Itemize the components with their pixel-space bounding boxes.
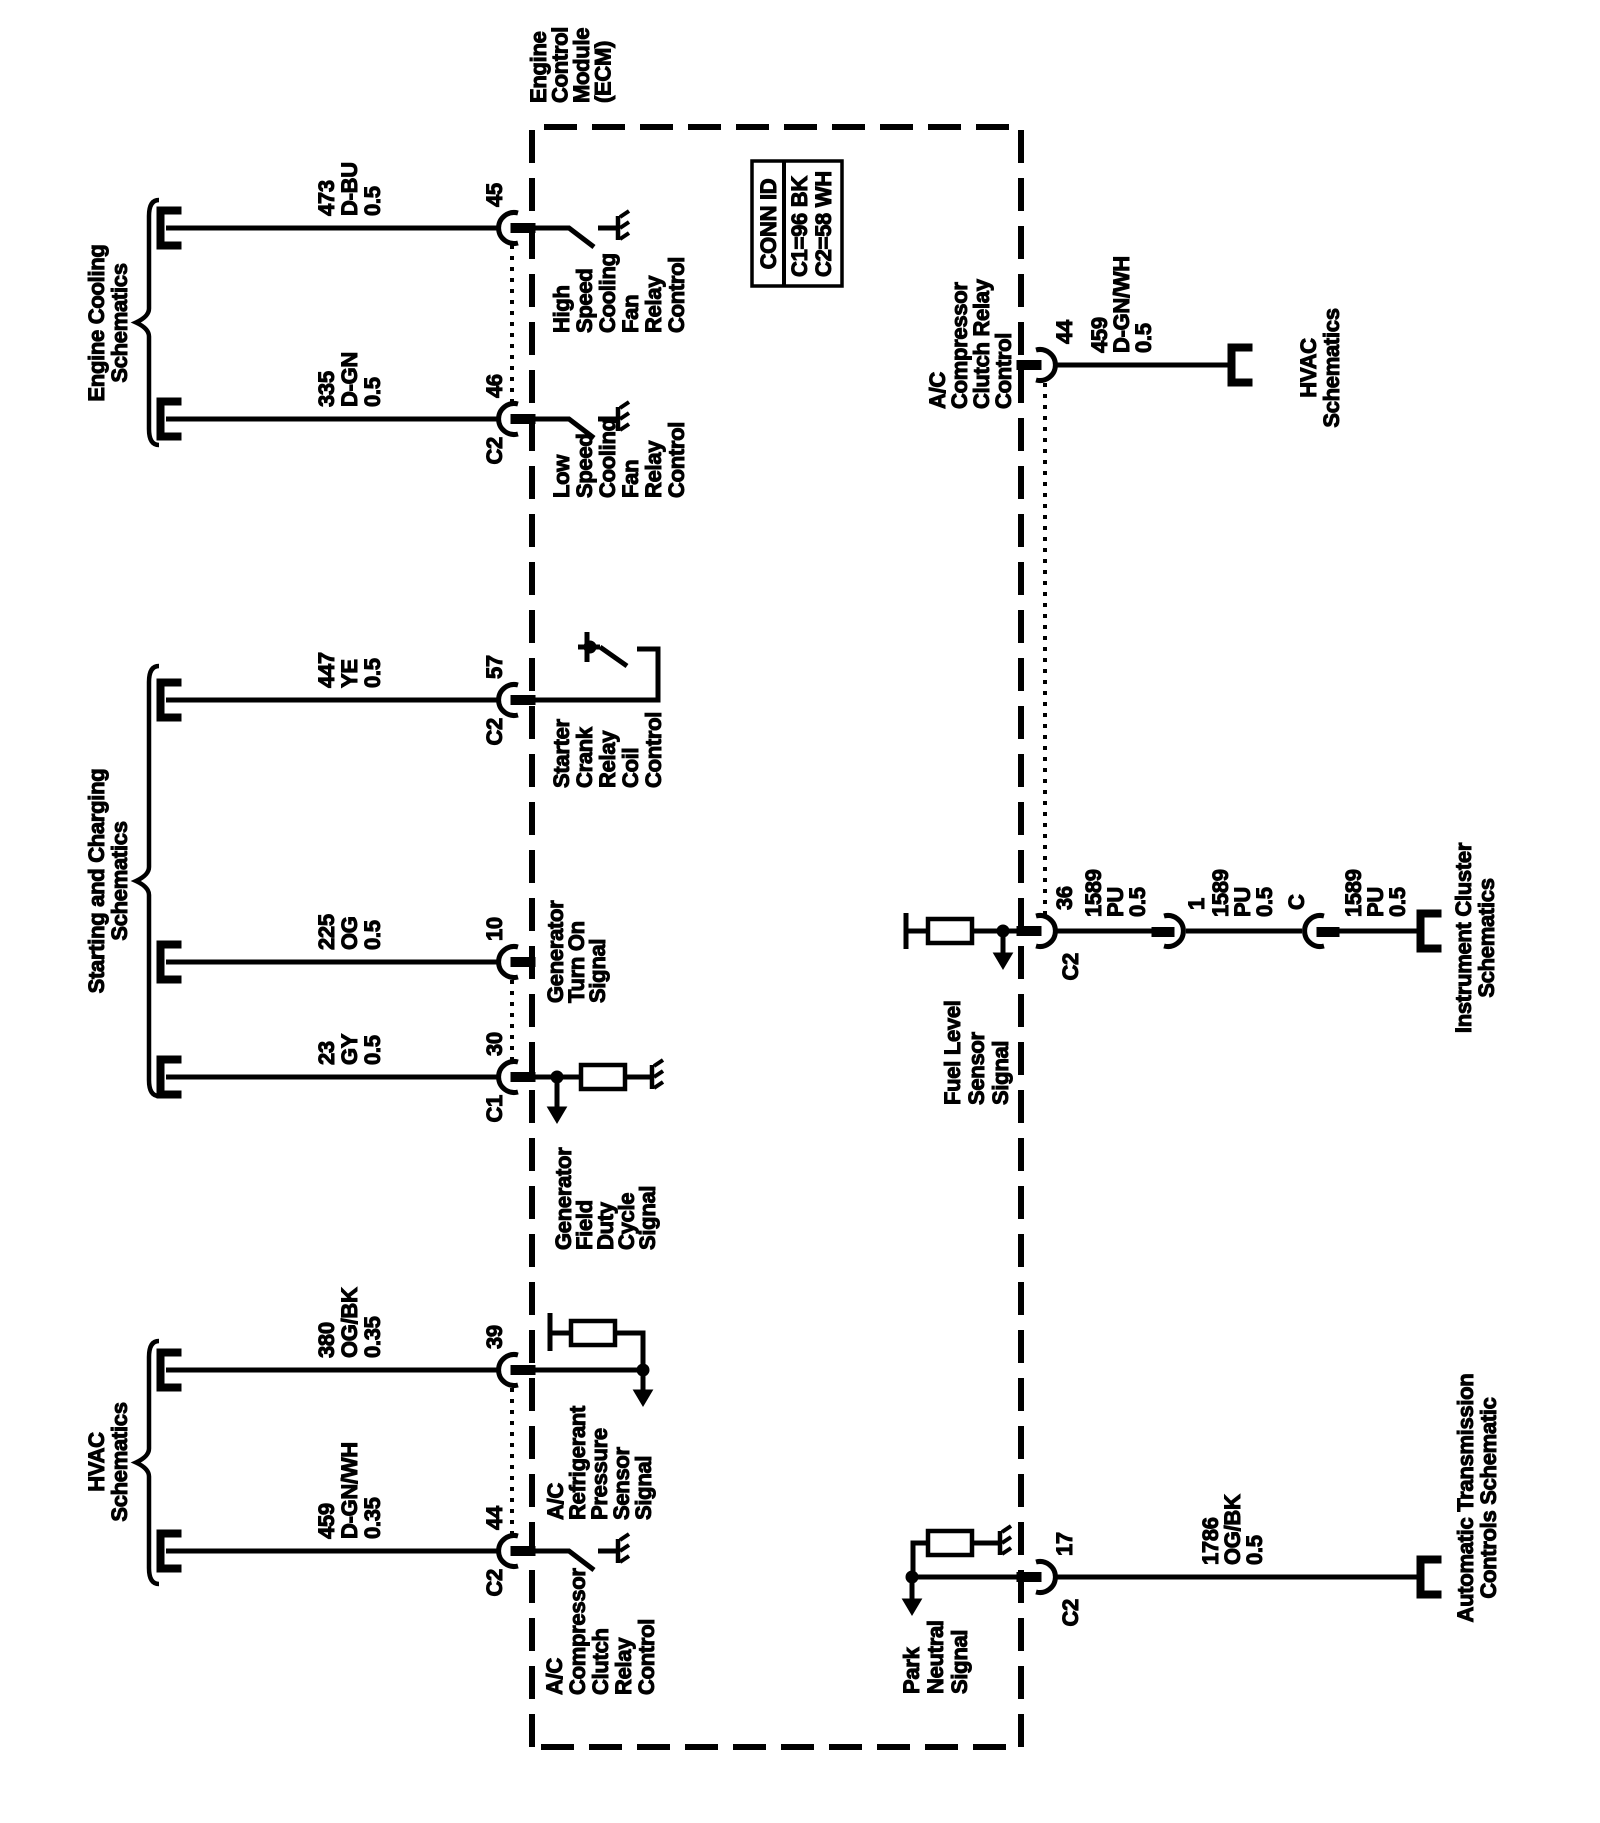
pin 45 connector dome — [499, 213, 518, 244]
svg-text:Automatic Transmission: Automatic Transmission — [1453, 1374, 1478, 1623]
wire 473 D-BU (vertical) — [166, 226, 500, 231]
wire 447 YE (vertical) — [166, 698, 500, 703]
svg-text:Coil: Coil — [618, 748, 643, 788]
connector label C2 at pin 36 — [1058, 953, 1083, 981]
pin number 44 (right) — [1052, 319, 1077, 344]
wire 335 D-GN (vertical) — [166, 417, 500, 422]
pin 39 connector dome — [499, 1355, 518, 1386]
svg-text:39: 39 — [482, 1325, 507, 1349]
internal circuit at pin 30: junction, arrow, resistor, ground — [535, 1075, 651, 1080]
svg-text:Cooling: Cooling — [595, 418, 620, 498]
svg-text:Compressor: Compressor — [565, 1568, 590, 1695]
svg-text:Schematics: Schematics — [107, 821, 132, 940]
svg-text:Control: Control — [664, 257, 689, 333]
label: Generator Turn On Signal at pin 10 — [543, 900, 610, 1003]
svg-text:Controls Schematic: Controls Schematic — [1476, 1397, 1501, 1598]
svg-text:(ECM): (ECM) — [591, 41, 616, 103]
pin 57 terminal bar — [511, 696, 535, 705]
label: Low Speed Cooling Fan Relay Control — [549, 418, 689, 498]
svg-text:A/C: A/C — [542, 1658, 567, 1695]
svg-text:C2: C2 — [1058, 953, 1083, 981]
brace: Starting and Charging Schematics group — [136, 666, 159, 1096]
wire label 473 D-BU 0.5 — [314, 162, 385, 216]
connector label C1 at pin 30 — [482, 1095, 507, 1123]
label: HVAC Schematics — [84, 1402, 132, 1521]
pin 46 terminal bar — [511, 415, 535, 424]
connector label C2 at pin 44 — [482, 1569, 507, 1597]
svg-text:0.5: 0.5 — [360, 658, 385, 688]
svg-text:Sensor: Sensor — [964, 1031, 989, 1105]
wire label 459 D-GN/WH 0.35 — [314, 1442, 385, 1539]
svg-text:Signal: Signal — [635, 1186, 660, 1250]
pin number 44 — [482, 1505, 507, 1530]
connector label 1 — [1184, 898, 1209, 910]
connector label C2 at pin 46 — [482, 437, 507, 465]
svg-text:Speed: Speed — [572, 268, 597, 333]
svg-text:C: C — [1284, 894, 1309, 910]
label: Starter Crank Relay Coil Control — [549, 712, 666, 788]
svg-text:380: 380 — [314, 1322, 339, 1358]
label: Park Neutral Signal — [899, 1620, 972, 1694]
svg-text:Schematics: Schematics — [1319, 308, 1344, 427]
brace: HVAC Schematics group — [136, 1341, 159, 1584]
svg-text:Cooling: Cooling — [595, 253, 620, 333]
connector label C2 at pin 17 — [1058, 1599, 1083, 1627]
svg-text:Schematics: Schematics — [1474, 878, 1499, 997]
svg-text:23: 23 — [314, 1041, 339, 1065]
svg-text:Relay: Relay — [641, 440, 666, 498]
pin number 10 — [482, 917, 507, 941]
svg-text:Fan: Fan — [618, 295, 643, 333]
pin number 17 — [1052, 1532, 1077, 1556]
svg-text:0.5: 0.5 — [1125, 887, 1150, 917]
internal driver switch to ground at pin 46 — [535, 402, 629, 438]
wire 1589 PU segment 2 — [1186, 929, 1302, 934]
pin 30 terminal bar — [511, 1073, 535, 1082]
terminal to Instrument Cluster Schematics — [1417, 910, 1441, 952]
svg-text:Schematics: Schematics — [107, 1402, 132, 1521]
pin 39 terminal bar — [511, 1366, 535, 1375]
svg-text:0.35: 0.35 — [360, 1316, 385, 1358]
svg-text:Park: Park — [899, 1646, 924, 1694]
label: Generator Field Duty Cycle Signal — [551, 1147, 660, 1250]
svg-text:C1: C1 — [482, 1095, 507, 1123]
svg-text:GY: GY — [337, 1033, 362, 1065]
svg-text:45: 45 — [482, 183, 507, 207]
svg-text:C2: C2 — [482, 718, 507, 746]
terminal to Automatic Transmission Controls Schematic — [1417, 1556, 1441, 1598]
svg-text:C2: C2 — [1058, 1599, 1083, 1627]
svg-text:OG/BK: OG/BK — [337, 1287, 362, 1358]
svg-text:YE: YE — [337, 659, 362, 688]
svg-text:44: 44 — [1052, 319, 1077, 344]
svg-text:C1=96 BK: C1=96 BK — [787, 176, 812, 277]
svg-text:Speed: Speed — [572, 433, 597, 498]
svg-text:Relay: Relay — [611, 1637, 636, 1695]
terminal for wire 447 YE — [157, 679, 181, 721]
svg-text:0.5: 0.5 — [360, 186, 385, 216]
wire label 225 OG 0.5 — [314, 914, 385, 950]
wire label 459 D-GN/WH 0.5 (right) — [1087, 256, 1156, 353]
svg-text:Low: Low — [549, 454, 574, 498]
wire label 23 GY 0.5 — [314, 1033, 385, 1065]
pin 45 terminal bar — [511, 224, 535, 233]
svg-text:Engine Cooling: Engine Cooling — [84, 244, 109, 401]
svg-text:335: 335 — [314, 371, 339, 407]
internal driver switch to ground at pin 45 — [535, 211, 629, 247]
internal circuit at pin 36: supply bar, resistor, junction, arrow — [906, 913, 1017, 949]
terminal for wire 23 GY — [157, 1056, 181, 1098]
svg-text:Starter: Starter — [549, 718, 574, 788]
wire 225 OG (vertical) — [166, 960, 500, 965]
wire label 1589 PU 0.5 (segment 1) — [1081, 869, 1150, 917]
svg-text:46: 46 — [482, 374, 507, 398]
pin 46 connector dome — [499, 403, 518, 434]
svg-text:0.5: 0.5 — [1242, 1535, 1267, 1565]
label: Engine Cooling Schematics — [84, 244, 132, 401]
svg-text:44: 44 — [482, 1505, 507, 1530]
pin 44 terminal bar — [511, 1547, 535, 1556]
wire 23 GY (vertical) — [166, 1075, 500, 1080]
dotted connector line pins 39-44 — [510, 1385, 514, 1535]
svg-text:Signal: Signal — [947, 1630, 972, 1694]
label: High Speed Cooling Fan Relay Control — [549, 253, 689, 333]
connector label C — [1284, 894, 1309, 910]
inline connector pin 1 — [1152, 928, 1174, 937]
svg-text:Control: Control — [641, 712, 666, 788]
wire label 380 OG/BK 0.35 — [314, 1287, 385, 1358]
pin 57 connector dome — [499, 685, 518, 716]
svg-text:High: High — [549, 285, 574, 333]
svg-text:Fan: Fan — [618, 460, 643, 498]
label: A/C Compressor Clutch Relay Control (pin 44 left) — [542, 1568, 659, 1695]
svg-text:HVAC: HVAC — [84, 1432, 109, 1492]
svg-text:D-GN/WH: D-GN/WH — [337, 1442, 362, 1539]
svg-text:Instrument Cluster: Instrument Cluster — [1451, 842, 1476, 1033]
svg-text:Starting and Charging: Starting and Charging — [84, 769, 109, 994]
pin number 45 — [482, 183, 507, 207]
svg-text:225: 225 — [314, 914, 339, 950]
svg-text:0.5: 0.5 — [1252, 887, 1277, 917]
svg-text:C2: C2 — [482, 1569, 507, 1597]
svg-text:Neutral: Neutral — [923, 1620, 948, 1694]
pin 10 connector dome — [499, 947, 518, 978]
wire 380 OG/BK (vertical) — [166, 1368, 500, 1373]
wire 459 D-GN/WH right side — [1055, 363, 1228, 368]
svg-text:Schematics: Schematics — [107, 263, 132, 382]
svg-text:36: 36 — [1052, 886, 1077, 910]
pin 10 terminal bar — [511, 958, 535, 967]
CONN ID table — [752, 161, 842, 286]
svg-text:0.5: 0.5 — [360, 1035, 385, 1065]
svg-text:Relay: Relay — [641, 275, 666, 333]
svg-text:30: 30 — [482, 1032, 507, 1056]
svg-text:Relay: Relay — [595, 730, 620, 788]
internal relay coil switch at pin 57 — [535, 632, 658, 700]
svg-text:17: 17 — [1052, 1532, 1077, 1556]
svg-text:0.5: 0.5 — [360, 377, 385, 407]
label: Fuel Level Sensor Signal — [940, 1000, 1013, 1105]
svg-text:Signal: Signal — [631, 1456, 656, 1520]
label: HVAC Schematics (right) — [1296, 308, 1344, 427]
pin number 30 — [482, 1032, 507, 1056]
label: A/C Compressor Clutch Relay Control (pin 44 right) — [925, 278, 1016, 409]
dotted connector line pins 10-30 — [510, 977, 514, 1061]
svg-text:459: 459 — [314, 1503, 339, 1539]
svg-text:CONN ID: CONN ID — [756, 179, 781, 270]
pin 36 terminal bar and dome — [1017, 927, 1041, 936]
internal driver switch to ground at pin 44 (left) — [535, 1534, 629, 1570]
label: Automatic Transmission Controls Schematic — [1453, 1374, 1501, 1623]
terminal for wire 459 D-GN/WH — [157, 1530, 181, 1572]
pin number 46 — [482, 374, 507, 398]
label: Instrument Cluster Schematics — [1451, 842, 1499, 1033]
svg-text:Control: Control — [664, 422, 689, 498]
terminal for wire 380 OG/BK — [157, 1349, 181, 1391]
terminal to HVAC Schematics — [1228, 344, 1252, 386]
wire label 447 YE 0.5 — [314, 652, 385, 688]
brace: Engine Cooling Schematics group — [136, 200, 159, 445]
pin 17 terminal bar and dome — [1017, 1573, 1041, 1582]
svg-text:Signal: Signal — [585, 939, 610, 1003]
terminal for wire 473 D-BU — [157, 207, 181, 249]
svg-text:0.5: 0.5 — [360, 920, 385, 950]
terminal for wire 335 D-GN — [157, 398, 181, 440]
svg-text:Signal: Signal — [988, 1041, 1013, 1105]
connector label C2 at pin 57 — [482, 718, 507, 746]
wire label 1589 PU 0.5 (segment 2) — [1208, 869, 1277, 917]
label: Starting and Charging Schematics — [84, 769, 132, 994]
svg-text:D-BU: D-BU — [337, 162, 362, 216]
inline connector C dome and bar — [1305, 916, 1324, 947]
svg-text:57: 57 — [482, 655, 507, 679]
label: Engine Control Module (ECM) — [526, 27, 616, 103]
svg-text:Control: Control — [991, 333, 1016, 409]
svg-text:C2: C2 — [482, 437, 507, 465]
svg-text:10: 10 — [482, 917, 507, 941]
svg-text:473: 473 — [314, 180, 339, 216]
wire label 1786 OG/BK 0.5 — [1198, 1494, 1267, 1565]
svg-text:C2=58 WH: C2=58 WH — [811, 171, 836, 277]
internal circuit at pin 39: pull-up resistor, junction, arrow — [535, 1313, 643, 1370]
wire label 1589 PU 0.5 (segment 3) — [1341, 869, 1410, 917]
wire 1589 PU segment 3 — [1339, 929, 1417, 934]
ECM dashed box outline — [532, 127, 1021, 1747]
pin 44 (right) terminal bar and dome — [1017, 361, 1041, 370]
internal circuit at pin 17: junction, arrow, resistor, ground — [912, 1543, 1017, 1577]
svg-text:Fuel Level: Fuel Level — [940, 1000, 965, 1105]
svg-text:Clutch: Clutch — [588, 1628, 613, 1695]
svg-text:0.5: 0.5 — [1385, 887, 1410, 917]
svg-text:D-GN: D-GN — [337, 352, 362, 407]
svg-text:OG: OG — [337, 916, 362, 950]
svg-text:Control: Control — [634, 1619, 659, 1695]
pin number 36 — [1052, 886, 1077, 910]
wire 459 D-GN/WH (vertical) — [166, 1549, 500, 1554]
svg-text:0.5: 0.5 — [1131, 323, 1156, 353]
svg-text:447: 447 — [314, 652, 339, 688]
wire 1786 OG/BK — [1055, 1575, 1417, 1580]
pin number 57 — [482, 655, 507, 679]
pin 44 connector dome — [499, 1536, 518, 1567]
svg-text:Crank: Crank — [572, 726, 597, 788]
dotted connector line pins 45-46 — [510, 243, 514, 403]
svg-text:HVAC: HVAC — [1296, 338, 1321, 398]
wire label 335 D-GN 0.5 — [314, 352, 385, 407]
terminal for wire 225 OG — [157, 941, 181, 983]
wire 1589 PU segment 1 — [1055, 929, 1152, 934]
label: A/C Refrigerant Pressure Sensor Signal — [543, 1405, 656, 1520]
dotted connector line pins 36-44 along bottom edge — [1043, 381, 1047, 915]
svg-text:1: 1 — [1184, 898, 1209, 910]
pin 30 connector dome — [499, 1062, 518, 1093]
pin number 39 — [482, 1325, 507, 1349]
svg-text:0.35: 0.35 — [360, 1497, 385, 1539]
